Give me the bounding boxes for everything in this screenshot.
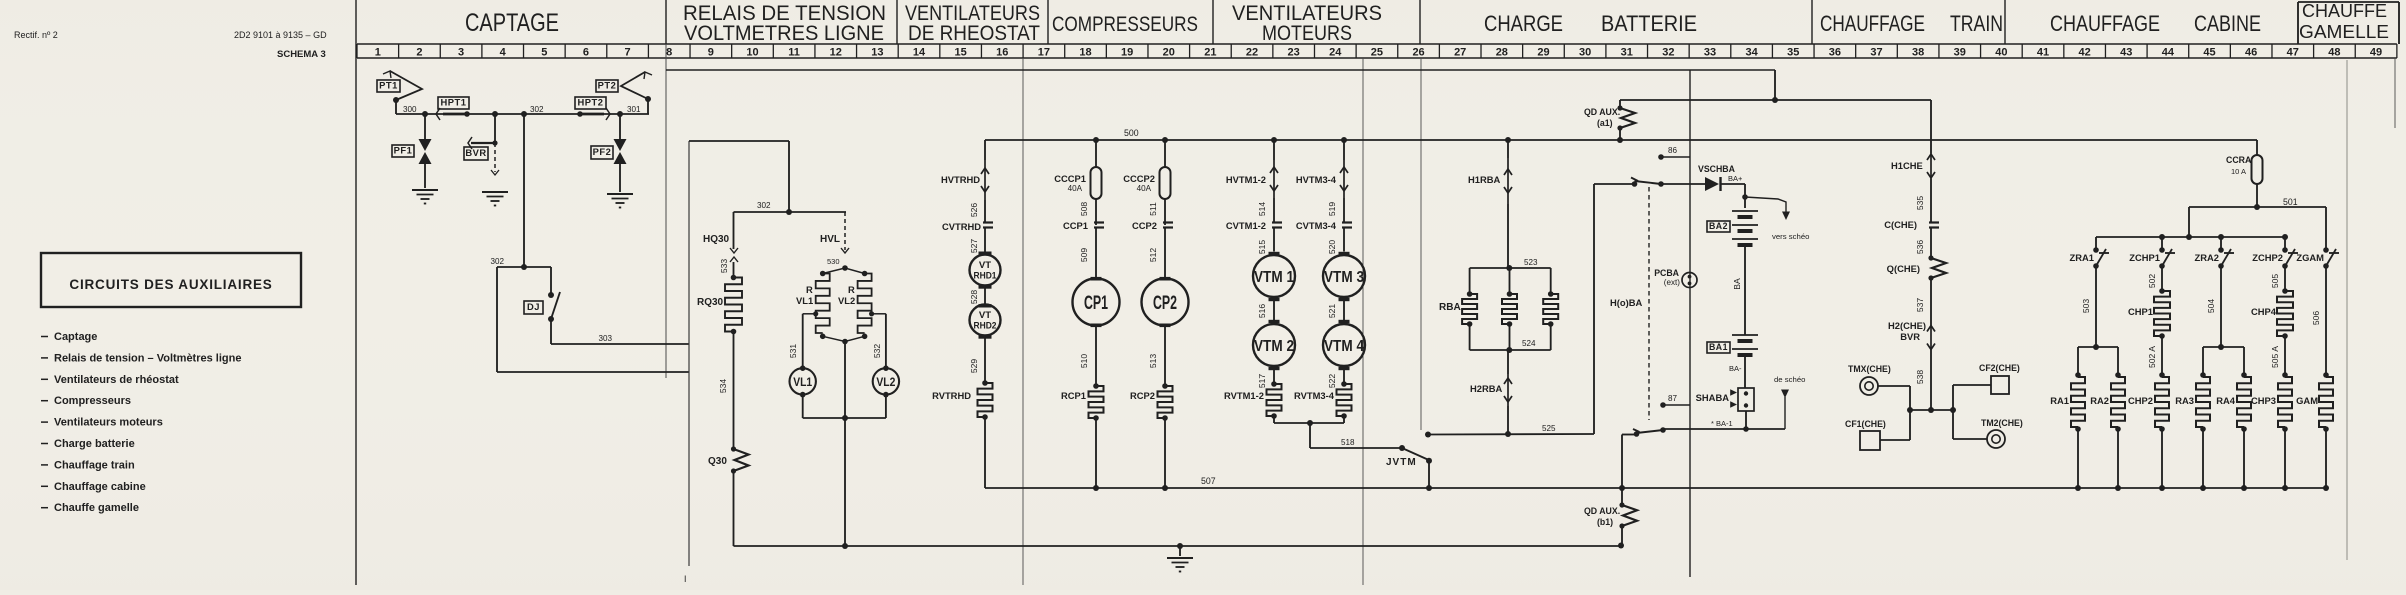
svg-text:TRAIN: TRAIN (1950, 11, 2003, 36)
svg-text:302: 302 (530, 105, 544, 114)
svg-text:502 A: 502 A (2147, 346, 2157, 368)
svg-text:9: 9 (708, 47, 714, 59)
svg-text:533: 533 (719, 259, 729, 274)
svg-text:VTM 2: VTM 2 (1254, 338, 1294, 355)
svg-text:HVL: HVL (820, 234, 840, 245)
svg-text:523: 523 (1524, 258, 1538, 267)
svg-text:538: 538 (1915, 370, 1925, 385)
svg-text:49: 49 (2370, 47, 2382, 59)
svg-text:303: 303 (598, 334, 612, 343)
svg-text:R: R (806, 285, 813, 295)
svg-text:VL2: VL2 (838, 296, 855, 306)
svg-text:RHD2: RHD2 (974, 321, 997, 332)
svg-text:509: 509 (1079, 248, 1089, 263)
svg-text:17: 17 (1038, 47, 1050, 59)
svg-text:518: 518 (1341, 438, 1355, 447)
svg-text:521: 521 (1327, 304, 1337, 319)
svg-text:RA3: RA3 (2175, 396, 2194, 406)
svg-text:301: 301 (627, 105, 641, 114)
svg-text:(b1): (b1) (1597, 517, 1613, 527)
svg-text:RBA: RBA (1439, 302, 1461, 313)
svg-text:CF2(CHE): CF2(CHE) (1979, 363, 2020, 373)
svg-text:SHABA: SHABA (1696, 393, 1730, 403)
svg-text:CCCP2: CCCP2 (1123, 174, 1155, 184)
svg-text:23: 23 (1288, 47, 1300, 59)
svg-text:BA: BA (1732, 278, 1742, 290)
svg-text:4: 4 (500, 47, 507, 59)
svg-text:508: 508 (1079, 202, 1089, 217)
svg-text:CHP1: CHP1 (2128, 307, 2153, 317)
svg-text:CP2: CP2 (1153, 293, 1177, 314)
svg-text:VT: VT (979, 260, 991, 271)
svg-text:522: 522 (1327, 374, 1337, 389)
svg-text:15: 15 (955, 47, 967, 59)
svg-text:26: 26 (1412, 47, 1424, 59)
svg-text:512: 512 (1148, 248, 1158, 263)
svg-text:PCBA: PCBA (1654, 268, 1679, 278)
svg-text:ZCHP2: ZCHP2 (2252, 253, 2283, 263)
svg-text:RQ30: RQ30 (697, 297, 724, 308)
svg-text:513: 513 (1148, 354, 1158, 369)
svg-text:BA2: BA2 (1709, 221, 1728, 231)
svg-text:526: 526 (969, 203, 979, 218)
svg-text:527: 527 (969, 239, 979, 254)
svg-text:TMX(CHE): TMX(CHE) (1848, 364, 1891, 374)
svg-text:504: 504 (2206, 299, 2216, 314)
svg-text:46: 46 (2245, 47, 2257, 59)
svg-text:Rectif. nº 2: Rectif. nº 2 (14, 30, 58, 40)
svg-text:CF1(CHE): CF1(CHE) (1845, 419, 1886, 429)
svg-text:vers schéo: vers schéo (1772, 232, 1809, 241)
svg-text:36: 36 (1829, 47, 1841, 59)
svg-text:Chauffe gamelle: Chauffe gamelle (54, 502, 139, 514)
svg-text:32: 32 (1662, 47, 1674, 59)
svg-text:CHARGE: CHARGE (1484, 11, 1563, 36)
svg-text:R: R (848, 285, 855, 295)
svg-text:12: 12 (830, 47, 842, 59)
svg-text:Captage: Captage (54, 331, 97, 343)
svg-text:CABINE: CABINE (2194, 11, 2261, 36)
svg-text:RHD1: RHD1 (974, 271, 998, 282)
svg-text:506: 506 (2311, 311, 2321, 326)
svg-text:GAMELLE: GAMELLE (2299, 21, 2389, 42)
svg-text:536: 536 (1915, 240, 1925, 255)
svg-text:Q(CHE): Q(CHE) (1887, 264, 1920, 274)
svg-text:VL1: VL1 (793, 375, 812, 389)
svg-text:519: 519 (1327, 202, 1337, 217)
svg-text:QD AUX.: QD AUX. (1584, 107, 1620, 117)
svg-text:31: 31 (1621, 47, 1633, 59)
svg-text:Chauffage cabine: Chauffage cabine (54, 481, 146, 493)
svg-text:Charge batterie: Charge batterie (54, 438, 135, 450)
svg-text:40: 40 (1995, 47, 2007, 59)
svg-text:44: 44 (2162, 47, 2175, 59)
svg-text:6: 6 (583, 47, 589, 59)
svg-text:CAPTAGE: CAPTAGE (465, 9, 559, 37)
svg-text:BA+: BA+ (1728, 174, 1743, 183)
svg-text:37: 37 (1870, 47, 1882, 59)
svg-text:532: 532 (872, 344, 882, 359)
svg-text:RVTM3-4: RVTM3-4 (1294, 391, 1335, 401)
svg-text:13: 13 (871, 47, 883, 59)
svg-text:35: 35 (1787, 47, 1799, 59)
svg-text:507: 507 (1201, 476, 1216, 486)
svg-text:VOLTMETRES LIGNE: VOLTMETRES LIGNE (684, 22, 884, 45)
svg-text:VTM 3: VTM 3 (1324, 269, 1364, 286)
svg-text:SCHEMA 3: SCHEMA 3 (277, 49, 326, 60)
svg-text:CHAUFFE: CHAUFFE (2302, 0, 2387, 21)
svg-text:Compresseurs: Compresseurs (54, 395, 131, 407)
svg-text:302: 302 (490, 257, 504, 266)
svg-text:CCCP1: CCCP1 (1054, 174, 1086, 184)
svg-text:40A: 40A (1137, 184, 1152, 193)
svg-text:1: 1 (375, 47, 381, 59)
svg-text:de schéo: de schéo (1774, 375, 1805, 384)
svg-text:RCP2: RCP2 (1130, 391, 1155, 401)
svg-text:I: I (684, 574, 686, 584)
svg-text:CVTM3-4: CVTM3-4 (1296, 221, 1337, 231)
svg-text:19: 19 (1121, 47, 1133, 59)
svg-text:CCRA: CCRA (2226, 155, 2252, 165)
svg-text:H1CHE: H1CHE (1891, 161, 1923, 171)
svg-text:22: 22 (1246, 47, 1258, 59)
svg-text:JVTM: JVTM (1386, 457, 1417, 468)
svg-text:33: 33 (1704, 47, 1716, 59)
svg-text:VTM 4: VTM 4 (1324, 338, 1364, 355)
svg-text:RA2: RA2 (2090, 396, 2109, 406)
svg-text:534: 534 (718, 379, 728, 394)
svg-text:RVTM1-2: RVTM1-2 (1224, 391, 1264, 401)
svg-text:HPT1: HPT1 (441, 98, 467, 108)
svg-text:RVTRHD: RVTRHD (932, 391, 971, 401)
svg-text:C(CHE): C(CHE) (1884, 220, 1917, 230)
svg-text:CVTRHD: CVTRHD (942, 222, 981, 232)
svg-text:501: 501 (2283, 197, 2298, 207)
svg-text:BVR: BVR (1900, 332, 1920, 342)
svg-text:5: 5 (541, 47, 547, 59)
svg-text:42: 42 (2079, 47, 2091, 59)
svg-text:H(o)BA: H(o)BA (1610, 298, 1643, 308)
svg-text:VTM 1: VTM 1 (1254, 269, 1294, 286)
svg-text:VT: VT (979, 310, 991, 321)
svg-text:CHAUFFAGE: CHAUFFAGE (1820, 11, 1925, 36)
svg-text:529: 529 (969, 359, 979, 374)
svg-text:Q30: Q30 (708, 456, 727, 467)
svg-text:29: 29 (1537, 47, 1549, 59)
svg-text:ZRA1: ZRA1 (2070, 253, 2094, 263)
svg-text:505 A: 505 A (2270, 346, 2280, 368)
svg-text:RA4: RA4 (2216, 396, 2236, 406)
svg-text:CCP1: CCP1 (1063, 221, 1088, 231)
svg-text:QD AUX.: QD AUX. (1584, 506, 1620, 516)
svg-text:2D2 9101 à 9135 – GD: 2D2 9101 à 9135 – GD (234, 30, 327, 40)
svg-text:510: 510 (1079, 354, 1089, 369)
svg-text:34: 34 (1745, 47, 1758, 59)
svg-text:18: 18 (1079, 47, 1091, 59)
svg-text:39: 39 (1954, 47, 1966, 59)
svg-text:16: 16 (996, 47, 1008, 59)
svg-text:520: 520 (1327, 240, 1337, 255)
svg-text:CHP2: CHP2 (2128, 396, 2153, 406)
svg-text:302: 302 (757, 201, 771, 210)
svg-text:CHP3: CHP3 (2251, 396, 2276, 406)
svg-text:* BA-1: * BA-1 (1711, 419, 1733, 428)
svg-text:525: 525 (1542, 424, 1556, 433)
svg-text:VSCHBA: VSCHBA (1698, 164, 1736, 174)
svg-text:41: 41 (2037, 47, 2049, 59)
svg-text:87: 87 (1668, 394, 1678, 403)
svg-text:VL1: VL1 (796, 296, 813, 306)
svg-text:3: 3 (458, 47, 464, 59)
svg-text:Ventilateurs moteurs: Ventilateurs moteurs (54, 417, 163, 429)
svg-text:BA1: BA1 (1709, 342, 1728, 352)
svg-text:502: 502 (2147, 274, 2157, 289)
svg-text:GAM: GAM (2296, 396, 2318, 406)
svg-text:47: 47 (2287, 47, 2299, 59)
svg-text:COMPRESSEURS: COMPRESSEURS (1052, 12, 1198, 36)
svg-text:517: 517 (1257, 374, 1267, 389)
svg-text:HVTRHD: HVTRHD (941, 175, 980, 185)
svg-text:TM2(CHE): TM2(CHE) (1981, 418, 2023, 428)
svg-text:14: 14 (913, 47, 926, 59)
svg-text:BVR: BVR (465, 148, 486, 158)
svg-text:HPT2: HPT2 (578, 98, 604, 108)
svg-text:505: 505 (2270, 274, 2280, 289)
svg-text:CHP4: CHP4 (2251, 307, 2277, 317)
svg-text:24: 24 (1329, 47, 1342, 59)
svg-text:20: 20 (1163, 47, 1175, 59)
svg-text:500: 500 (1124, 128, 1139, 138)
svg-text:HVTM3-4: HVTM3-4 (1296, 175, 1337, 185)
svg-text:511: 511 (1148, 202, 1158, 216)
svg-text:H1RBA: H1RBA (1468, 175, 1501, 185)
svg-text:HVTM1-2: HVTM1-2 (1226, 175, 1266, 185)
svg-text:RCP1: RCP1 (1061, 391, 1086, 401)
svg-text:ZCHP1: ZCHP1 (2129, 253, 2160, 263)
svg-text:BATTERIE: BATTERIE (1601, 11, 1697, 36)
svg-text:(a1): (a1) (1597, 118, 1613, 128)
svg-text:30: 30 (1579, 47, 1591, 59)
svg-text:PF1: PF1 (394, 146, 413, 156)
svg-text:537: 537 (1915, 298, 1925, 313)
svg-text:BA-: BA- (1729, 364, 1742, 373)
svg-text:10: 10 (746, 47, 758, 59)
svg-text:27: 27 (1454, 47, 1466, 59)
svg-text:DJ: DJ (527, 302, 540, 312)
svg-text:38: 38 (1912, 47, 1924, 59)
svg-text:11: 11 (788, 47, 800, 59)
svg-text:(ext): (ext) (1664, 278, 1681, 287)
svg-text:21: 21 (1204, 47, 1216, 59)
svg-text:531: 531 (788, 344, 798, 359)
svg-text:H2RBA: H2RBA (1470, 384, 1503, 394)
svg-text:CVTM1-2: CVTM1-2 (1226, 221, 1266, 231)
svg-text:28: 28 (1496, 47, 1508, 59)
svg-text:503: 503 (2081, 299, 2091, 314)
svg-text:PF2: PF2 (593, 147, 612, 157)
svg-text:PT2: PT2 (598, 81, 617, 91)
svg-text:515: 515 (1257, 240, 1267, 255)
svg-text:CCP2: CCP2 (1132, 221, 1157, 231)
svg-text:300: 300 (403, 105, 417, 114)
svg-text:535: 535 (1915, 196, 1925, 211)
svg-text:48: 48 (2328, 47, 2340, 59)
svg-text:CIRCUITS DES AUXILIAIRES: CIRCUITS DES AUXILIAIRES (69, 277, 272, 292)
svg-text:524: 524 (1522, 339, 1536, 348)
svg-text:HQ30: HQ30 (703, 234, 730, 245)
svg-text:RA1: RA1 (2050, 396, 2069, 406)
svg-text:Relais de tension – Voltmètres: Relais de tension – Voltmètres ligne (54, 352, 241, 364)
svg-text:DE RHEOSTAT: DE RHEOSTAT (908, 22, 1040, 45)
svg-text:CHAUFFAGE: CHAUFFAGE (2050, 11, 2160, 36)
svg-text:530: 530 (827, 257, 840, 266)
svg-text:516: 516 (1257, 304, 1267, 319)
svg-text:VL2: VL2 (876, 375, 895, 389)
svg-text:8: 8 (666, 47, 672, 59)
svg-text:514: 514 (1257, 202, 1267, 217)
svg-text:528: 528 (969, 290, 979, 305)
svg-text:CP1: CP1 (1084, 293, 1108, 314)
svg-text:45: 45 (2203, 47, 2215, 59)
svg-text:7: 7 (625, 47, 631, 59)
svg-text:86: 86 (1668, 146, 1678, 155)
svg-text:43: 43 (2120, 47, 2132, 59)
svg-text:Ventilateurs de rhéostat: Ventilateurs de rhéostat (54, 374, 179, 386)
svg-text:10 A: 10 A (2231, 167, 2246, 176)
svg-text:2: 2 (416, 47, 422, 59)
svg-text:40A: 40A (1068, 184, 1083, 193)
svg-text:H2(CHE): H2(CHE) (1888, 321, 1926, 331)
svg-text:ZGAM: ZGAM (2296, 253, 2324, 263)
svg-text:ZRA2: ZRA2 (2195, 253, 2219, 263)
svg-text:MOTEURS: MOTEURS (1262, 22, 1352, 45)
svg-text:Chauffage train: Chauffage train (54, 459, 135, 471)
svg-text:25: 25 (1371, 47, 1383, 59)
svg-text:PT1: PT1 (379, 81, 398, 91)
